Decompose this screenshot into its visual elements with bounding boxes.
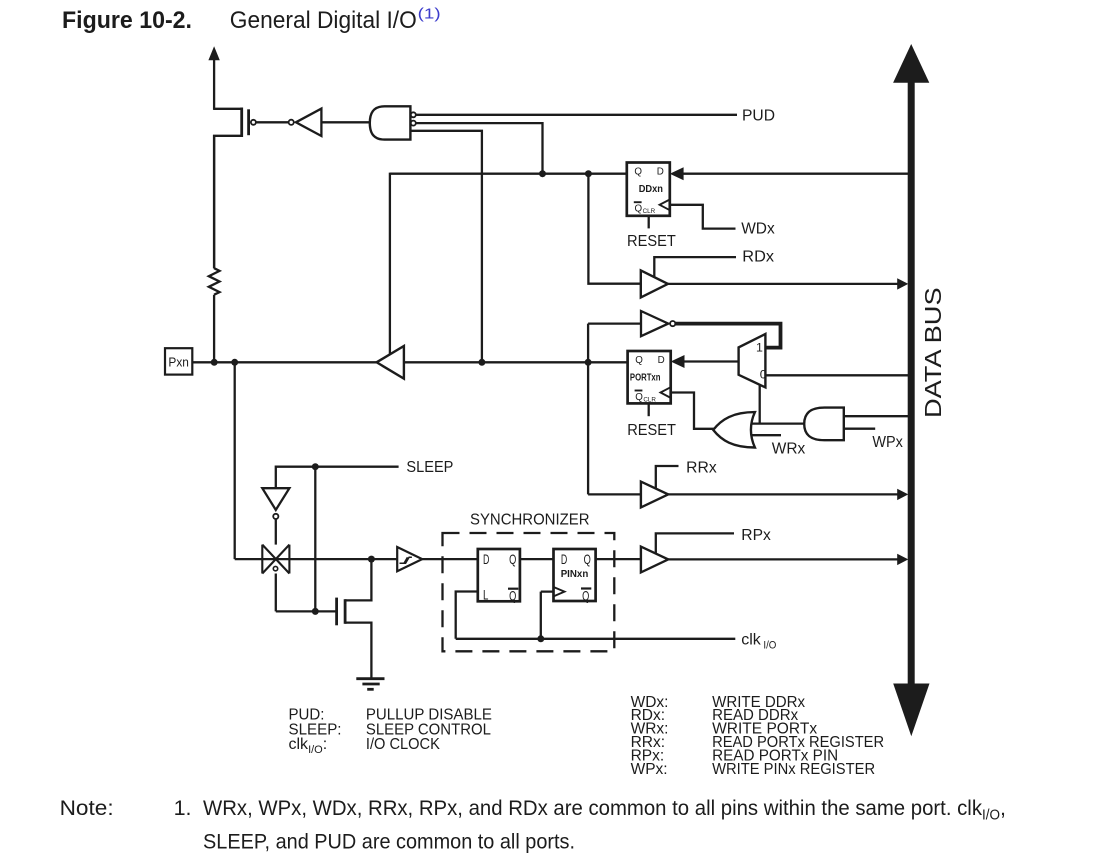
wire mux output to PORTxn D: [684, 360, 739, 362]
wire output-driver enable from DDxn Q: [389, 173, 391, 355]
inverter U3 (PORTxn toggle feedback): [641, 311, 675, 336]
wire DDxn Q down to RDx buffer: [588, 174, 640, 284]
svg-text:Pxn: Pxn: [168, 356, 189, 370]
svg-text:Q: Q: [509, 551, 516, 567]
pad Pxn: [165, 348, 192, 374]
output driver buffer (points left to pin): [377, 346, 404, 379]
svg-text:WRx, WPx, WDx, RRx, RPx, and R: WRx, WPx, WDx, RRx, RPx, and RDx are com…: [203, 796, 1006, 824]
latch L1 (D latch): [478, 549, 520, 604]
ground: [356, 679, 384, 690]
wire SLEEP net: [276, 467, 399, 489]
mux (PINxn toggle select): [739, 334, 766, 387]
svg-text:CLR: CLR: [643, 396, 656, 403]
svg-text:CLR: CLR: [643, 208, 656, 215]
junction AND3-input / pin rail: [478, 359, 485, 366]
svg-text:PUD: PUD: [742, 107, 775, 124]
svg-text:D: D: [657, 166, 664, 177]
wire switch bottom to nMOS gate row: [276, 574, 337, 612]
AND gate U5 (toggle: WPx & data bus): [804, 408, 844, 441]
flip-flop PINxn: [554, 549, 596, 604]
analog switch (sleep clamp, bowtie): [262, 545, 289, 574]
wire RRx buffer output to data bus: [668, 493, 898, 495]
wire latch L enable: [456, 592, 478, 639]
svg-text:DDxn: DDxn: [639, 184, 663, 195]
svg-text:1.: 1.: [174, 796, 192, 820]
svg-text:D: D: [483, 551, 489, 567]
svg-text:RESET: RESET: [627, 233, 676, 250]
wire OR top input / AND output / mux select node: [751, 422, 805, 424]
svg-text:WPx:: WPx:: [631, 761, 668, 778]
wire inverter output to mux input 1 (thick): [675, 322, 782, 350]
tri-state buffer RPx: [641, 547, 668, 573]
svg-text:Q: Q: [634, 166, 642, 177]
svg-text:Q: Q: [582, 588, 589, 604]
wire input path Pxn down: [234, 362, 236, 559]
power VCC arrow: [208, 46, 219, 110]
wire RRx enable: [656, 466, 679, 489]
inverter U1 (drives pull-up gate): [289, 109, 322, 136]
svg-text:clk: clk: [741, 632, 762, 649]
wire AND output to inverter input: [321, 121, 374, 123]
wire mux select from AND WPx: [759, 385, 761, 424]
junction pin rail / PORTxn Q column: [585, 359, 592, 366]
tri-state buffer RDx: [641, 270, 668, 297]
wire WDx to DDxn clock: [670, 205, 736, 229]
wire data bus to DDxn D: [683, 173, 909, 175]
svg-text:RDx: RDx: [742, 249, 774, 266]
wire pin input row through switch to schmitt: [235, 558, 398, 560]
junction input row / clamp nMOS drain: [368, 556, 375, 563]
wire RPx buffer output to data bus: [668, 558, 898, 560]
svg-text:PORTxn: PORTxn: [630, 373, 661, 384]
wire schmitt to synchronizer latch: [422, 558, 478, 560]
wire AND input 3 from pin rail: [410, 131, 482, 361]
svg-text:WPx: WPx: [872, 434, 903, 451]
wire AND input from data bus: [844, 415, 909, 417]
inverter U6 (SLEEP, points down): [262, 488, 289, 519]
wire inverter to analog switch: [275, 519, 277, 545]
wire mux input 0 from data bus: [765, 374, 909, 376]
svg-text:SLEEP, and PUD are common to a: SLEEP, and PUD are common to all ports.: [203, 830, 575, 854]
wire PINxn clock from clkIO: [541, 592, 554, 639]
svg-text:WRITE PINx REGISTER: WRITE PINx REGISTER: [712, 761, 875, 778]
svg-text:Q: Q: [584, 551, 591, 567]
wire PORTxn clock from OR gate: [671, 393, 714, 429]
transistor Q2 clamp nMOS: [337, 559, 372, 679]
svg-text:RPx: RPx: [741, 527, 771, 544]
junction nMOS gate row: [312, 608, 319, 615]
junction rail / input path: [231, 359, 238, 366]
arrowhead RRx to bus: [897, 489, 908, 500]
arrowhead RPx to bus: [897, 554, 908, 565]
junction AND2-input / DDxn Q row: [539, 170, 546, 177]
junction SLEEP / nMOS gate column: [312, 463, 319, 470]
wire RESET stub (DDxn CLR): [648, 216, 650, 229]
svg-text:(1): (1): [418, 6, 441, 23]
svg-text:Figure 10-2.: Figure 10-2.: [62, 7, 192, 34]
wire SLEEP column down: [314, 467, 316, 612]
svg-text:RESET: RESET: [627, 422, 676, 439]
wire RESET stub (PORTxn CLR): [648, 403, 650, 416]
wire DDxn Q row: [390, 173, 627, 175]
svg-text:D: D: [658, 355, 665, 366]
wire clkIO net: [456, 638, 736, 640]
transistor Q1 pull-up pMOS: [214, 108, 256, 269]
wire inverter output to pMOS gate: [256, 121, 289, 123]
junction DDxn Q / RDx tap: [585, 170, 592, 177]
svg-text:PINxn: PINxn: [561, 569, 589, 580]
svg-text:WRx: WRx: [772, 440, 806, 457]
wire RDx buffer output to data bus: [668, 283, 898, 285]
wire PORTxn Q to inverter input: [588, 322, 641, 324]
junction clkIO / PINxn clock: [537, 635, 544, 642]
wire RDx enable: [654, 257, 736, 278]
svg-text:I/O CLOCK: I/O CLOCK: [366, 736, 440, 753]
svg-text:WDx: WDx: [741, 220, 775, 237]
svg-text:L: L: [483, 587, 489, 603]
tri-state buffer RRx: [641, 482, 668, 508]
flip-flop PORTxn: [628, 351, 671, 403]
svg-text:SLEEP: SLEEP: [406, 459, 453, 476]
svg-text:Note:: Note:: [60, 796, 114, 820]
resistor R1 pull-up: [209, 135, 220, 362]
svg-text:I/O: I/O: [763, 639, 776, 651]
svg-text:Q: Q: [509, 588, 516, 604]
svg-text:Q: Q: [635, 392, 643, 403]
wire PUD net: [416, 114, 737, 116]
junction rail / pull-up: [211, 359, 218, 366]
dashed box synchronizer: [443, 533, 615, 651]
AND gate U2 (pull-up enable, inputs PUD / DDxn / PORTxn): [370, 106, 416, 139]
wire AND input 2 from DDxn Q: [416, 123, 543, 172]
wire pin rail Pxn to PORTxn: [192, 361, 627, 363]
schmitt trigger buffer: [397, 547, 422, 571]
arrowhead RDx to bus: [897, 278, 908, 289]
OR gate U4 (PORTxn clock: WRx + WPx): [713, 412, 755, 447]
wire PORTxn Q column (inverter / rail / RRx): [587, 324, 589, 495]
flip-flop DDxn: [627, 163, 670, 216]
wire PINxn Q to RPx buffer: [596, 558, 641, 560]
svg-text:General Digital I/O: General Digital I/O: [230, 7, 417, 34]
wire PORTxn Q to RRx buffer: [588, 493, 641, 495]
arrowhead D input of PORTxn: [671, 355, 685, 368]
wire AND input WPx: [844, 428, 875, 430]
svg-text:DATA BUS: DATA BUS: [920, 287, 946, 418]
wire RPx enable: [656, 533, 734, 554]
arrowhead D input of DDxn: [670, 167, 684, 180]
svg-text:Q: Q: [635, 355, 643, 366]
data bus (thick vertical, double arrow): [893, 44, 929, 736]
svg-text:SYNCHRONIZER: SYNCHRONIZER: [470, 512, 590, 529]
wire OR bottom input WRx: [751, 434, 781, 436]
svg-text:RRx: RRx: [686, 460, 717, 477]
wire latch Q to PINxn D: [520, 558, 554, 560]
svg-text:D: D: [561, 551, 567, 567]
svg-text:Q: Q: [635, 204, 643, 215]
svg-text:1: 1: [756, 341, 763, 355]
